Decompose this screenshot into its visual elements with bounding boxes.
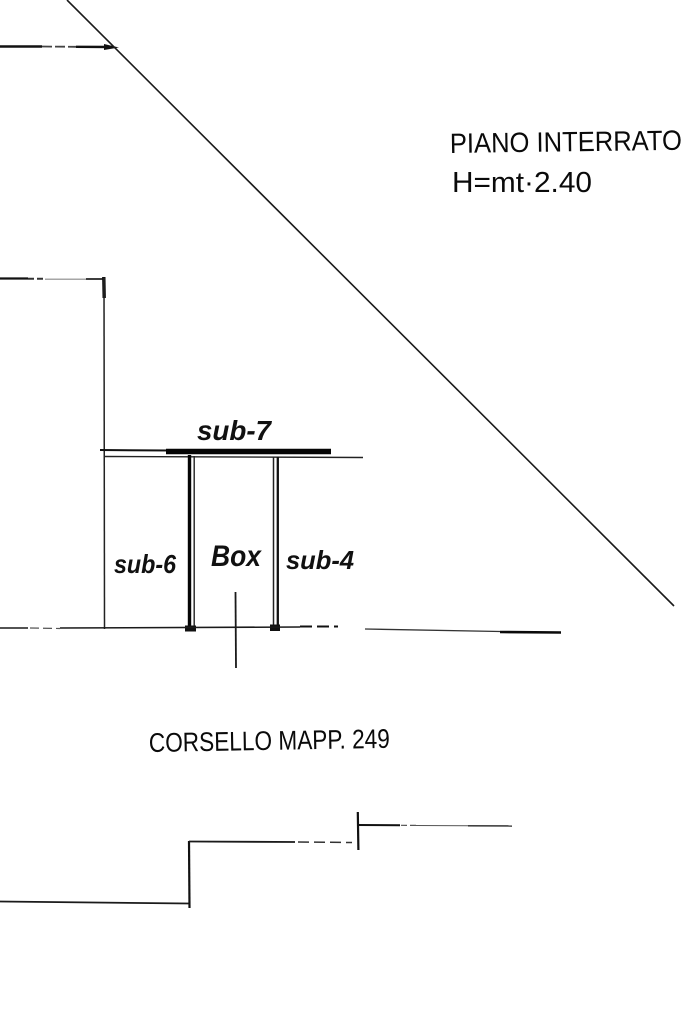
wire: ceiling long thin underline bbox=[104, 457, 363, 458]
wire: lower step horizontal bbox=[0, 902, 189, 904]
wire: diagonal boundary line bbox=[67, 0, 674, 606]
wire: ground line bbox=[0, 627, 561, 633]
svg-text:sub-4: sub-4 bbox=[286, 545, 355, 575]
wire: short vertical below Box bbox=[235, 592, 238, 668]
wire: middle step horizontal bbox=[189, 842, 352, 843]
wire: step riser vertical bbox=[188, 841, 191, 908]
wire: step tick vertical bbox=[357, 812, 360, 850]
svg-text:sub-7: sub-7 bbox=[197, 415, 272, 446]
wire: ceiling thin left segment bbox=[100, 449, 170, 452]
wire: thick beam over box bbox=[166, 449, 331, 454]
svg-text:PIANO INTERRATO: PIANO INTERRATO bbox=[450, 125, 682, 159]
wire: top-left wall line bbox=[0, 44, 119, 50]
svg-text:H=mt·2.40: H=mt·2.40 bbox=[452, 167, 592, 199]
svg-text:Box: Box bbox=[211, 540, 262, 573]
svg-text:sub-6: sub-6 bbox=[114, 549, 176, 579]
wire: left wall vertical bbox=[103, 278, 106, 629]
wall: right pillar bbox=[270, 457, 280, 631]
wire: mid-left wall horizontal bbox=[0, 277, 104, 298]
svg-text:CORSELLO MAPP. 249: CORSELLO MAPP. 249 bbox=[149, 724, 390, 758]
wall: left pillar bbox=[185, 455, 196, 632]
wire: upper step horizontal bbox=[357, 825, 512, 826]
